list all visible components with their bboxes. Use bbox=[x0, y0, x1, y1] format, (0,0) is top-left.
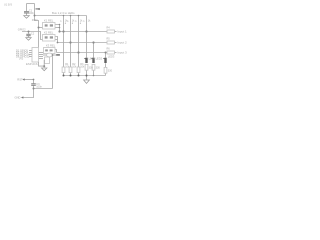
svg-text:K3 REL: K3 REL bbox=[46, 43, 56, 47]
svg-text:100n: 100n bbox=[36, 86, 42, 89]
svg-text:Bus 1,2,3 to LEDs: Bus 1,2,3 to LEDs bbox=[52, 11, 75, 15]
svg-text:Input 1: Input 1 bbox=[118, 30, 128, 34]
svg-text:3V3: 3V3 bbox=[19, 58, 24, 61]
svg-text:330: 330 bbox=[108, 69, 113, 72]
svg-text:K1 REL: K1 REL bbox=[44, 18, 54, 22]
svg-text:100n: 100n bbox=[29, 11, 35, 15]
svg-text:330: 330 bbox=[96, 66, 101, 69]
svg-text:LED1: LED1 bbox=[89, 57, 96, 61]
svg-text:330: 330 bbox=[89, 66, 94, 69]
svg-text:LED3: LED3 bbox=[108, 55, 115, 59]
svg-text:RXD: RXD bbox=[32, 18, 38, 22]
svg-text:LED2: LED2 bbox=[96, 57, 103, 61]
svg-text:ESP-01S: ESP-01S bbox=[26, 62, 38, 66]
svg-text:K2 REL: K2 REL bbox=[44, 30, 54, 34]
svg-text:GPIO2: GPIO2 bbox=[18, 28, 26, 32]
svg-text:U1 3V3: U1 3V3 bbox=[4, 4, 13, 7]
svg-text:Input 3: Input 3 bbox=[118, 51, 128, 55]
svg-text:RST: RST bbox=[17, 78, 23, 82]
svg-text:Input 2: Input 2 bbox=[118, 41, 128, 45]
svg-text:GND: GND bbox=[15, 96, 21, 100]
